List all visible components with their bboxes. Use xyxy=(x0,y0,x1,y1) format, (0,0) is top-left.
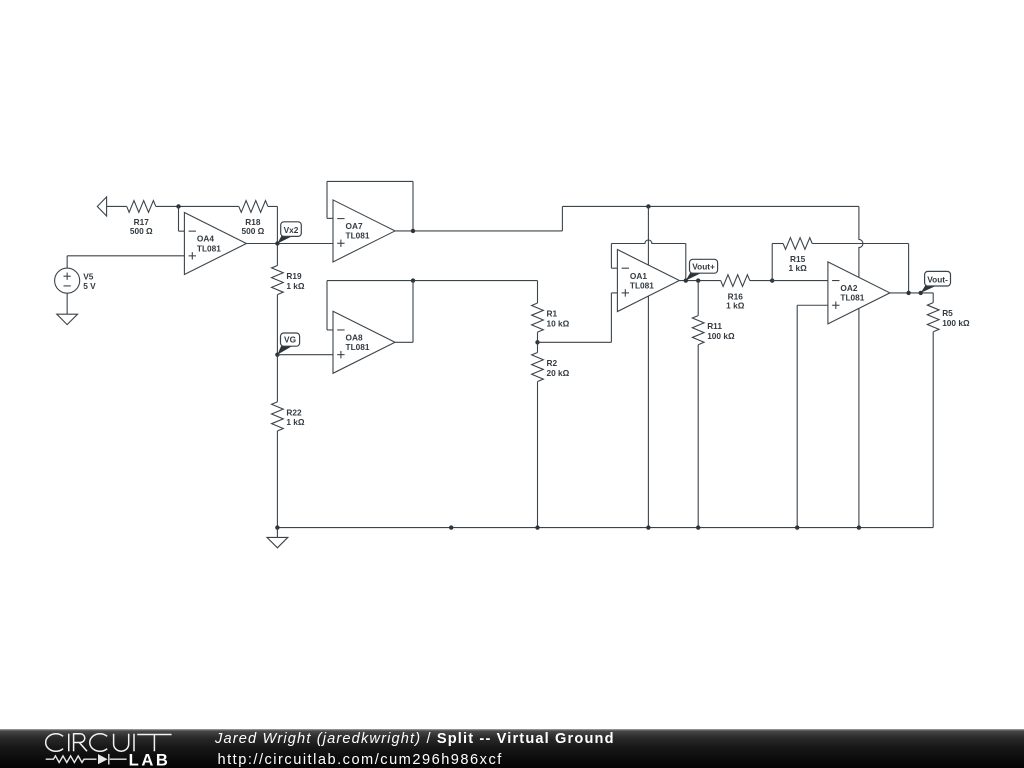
node OA7 output junction xyxy=(411,229,415,233)
wire xyxy=(67,255,184,257)
node bus/R22 xyxy=(275,525,279,529)
node OA8 feedback junction xyxy=(411,278,415,282)
ground (below V5) xyxy=(57,314,78,324)
svg-text:1 kΩ: 1 kΩ xyxy=(286,281,305,291)
wire xyxy=(156,205,239,207)
node Vout+ junction xyxy=(684,278,688,282)
wire xyxy=(611,267,617,269)
wire xyxy=(908,244,910,293)
svg-text:1 kΩ: 1 kΩ xyxy=(286,417,305,427)
svg-text:OA4: OA4 xyxy=(197,234,214,244)
wire OA2 output xyxy=(890,292,933,294)
node bus/R2 xyxy=(535,525,539,529)
svg-text:LAB: LAB xyxy=(129,750,171,768)
wire xyxy=(412,281,414,343)
wire xyxy=(772,243,783,245)
wire VG row xyxy=(277,354,333,356)
wire xyxy=(276,355,278,402)
wire xyxy=(932,293,934,303)
svg-text:R22: R22 xyxy=(286,407,302,417)
op-amp OA8 xyxy=(333,311,395,373)
wire to OA2 - xyxy=(772,280,828,282)
node rail junction xyxy=(646,204,650,208)
svg-text:100 kΩ: 100 kΩ xyxy=(942,318,970,328)
svg-text:TL081: TL081 xyxy=(197,243,221,253)
wire node Vx2 row xyxy=(246,243,333,245)
wire OA1 V- pin xyxy=(647,296,649,528)
wire xyxy=(537,332,539,342)
wire xyxy=(412,181,414,231)
svg-text:http://circuitlab.com/cum296h9: http://circuitlab.com/cum296h986xcf xyxy=(218,752,503,768)
resistor R16 xyxy=(721,275,750,287)
op-amp OA4 xyxy=(184,213,246,275)
svg-text:TL081: TL081 xyxy=(346,342,370,352)
svg-text:R2: R2 xyxy=(547,358,558,368)
wire xyxy=(326,281,328,330)
svg-text:TL081: TL081 xyxy=(840,293,864,303)
svg-text:Vout-: Vout- xyxy=(927,274,948,284)
op-amp OA2 xyxy=(828,262,890,324)
wire xyxy=(66,293,68,314)
wire xyxy=(537,342,539,352)
svg-text:VG: VG xyxy=(284,335,296,345)
wire OA1 V+ pin xyxy=(647,206,649,265)
node bus/OA1 V- xyxy=(646,525,650,529)
wire xyxy=(537,281,539,304)
net label VG xyxy=(277,346,293,355)
svg-text:R11: R11 xyxy=(707,321,722,331)
wire xyxy=(268,205,278,207)
wire xyxy=(812,243,908,245)
node bus stray xyxy=(449,525,453,529)
net label Vx2 xyxy=(277,236,293,244)
svg-text:1 kΩ: 1 kΩ xyxy=(789,263,808,273)
footer bar xyxy=(0,729,1024,768)
wire xyxy=(610,244,612,269)
wire ground bus xyxy=(277,527,933,529)
op-amp OA7 xyxy=(333,200,395,262)
wire xyxy=(750,280,772,282)
wire xyxy=(796,305,798,527)
wire xyxy=(685,244,687,281)
wire OA2 V- pin xyxy=(858,308,860,527)
svg-text:Vout+: Vout+ xyxy=(692,262,715,272)
wire OA1 output row xyxy=(679,280,720,282)
op-amp OA1 xyxy=(617,250,679,312)
voltage source V5 xyxy=(55,268,80,293)
svg-text:OA1: OA1 xyxy=(630,271,647,281)
node Vout- junction xyxy=(919,291,923,295)
wire to OA1 + xyxy=(611,292,617,294)
svg-text:V5: V5 xyxy=(83,271,94,281)
wire xyxy=(179,230,185,232)
node bus/R11 xyxy=(696,525,700,529)
wire OA2 V+ pin with hop xyxy=(859,206,863,277)
wire OA8 output xyxy=(395,341,413,343)
wire xyxy=(66,256,68,268)
svg-text:1 kΩ: 1 kΩ xyxy=(726,300,745,310)
wire xyxy=(276,244,278,266)
svg-text:OA7: OA7 xyxy=(346,221,363,231)
svg-text:500 Ω: 500 Ω xyxy=(130,226,153,236)
resistor R17 xyxy=(127,201,156,213)
wire xyxy=(561,206,563,230)
net flag (input arrow) xyxy=(97,197,106,216)
wire xyxy=(276,295,278,355)
svg-text:TL081: TL081 xyxy=(346,231,370,241)
svg-text:Jared Wright (jaredkwright) /: Jared Wright (jaredkwright) / Split -- V… xyxy=(214,731,615,747)
wire xyxy=(327,217,333,219)
net label Vout- xyxy=(921,285,937,293)
node R1/R2 junction xyxy=(535,340,539,344)
wire xyxy=(610,293,612,342)
wire xyxy=(276,528,278,538)
wire xyxy=(697,281,699,316)
node bus/OA2 V- xyxy=(857,525,861,529)
svg-text:R19: R19 xyxy=(286,271,302,281)
wire OA7 feedback top xyxy=(327,180,413,182)
wire OA1 feedback top with hop xyxy=(611,240,685,243)
wire top rail xyxy=(562,205,859,207)
node bus/OA2 + xyxy=(795,525,799,529)
wire xyxy=(326,181,328,218)
svg-text:R5: R5 xyxy=(942,308,953,318)
resistor R5 xyxy=(927,303,939,332)
svg-text:R1: R1 xyxy=(547,309,558,319)
wire xyxy=(327,329,333,331)
ground (bus) xyxy=(267,537,288,547)
resistor R2 xyxy=(532,352,544,381)
node junction R17/R18/OA4- xyxy=(176,204,180,208)
wire xyxy=(276,206,278,243)
resistor R19 xyxy=(272,266,284,295)
svg-text:500 Ω: 500 Ω xyxy=(241,226,264,236)
logo CIRCUIT xyxy=(46,734,172,752)
wire xyxy=(178,206,180,231)
wire OA2 + input xyxy=(797,304,828,306)
node Vx2 junction xyxy=(275,241,279,245)
svg-text:Vx2: Vx2 xyxy=(284,225,299,235)
wire xyxy=(771,244,773,281)
node R16/R15 junction xyxy=(770,278,774,282)
wire xyxy=(107,205,127,207)
wire xyxy=(276,431,278,528)
logo squiggle resistor+diode xyxy=(46,754,127,765)
node R11 tap xyxy=(696,278,700,282)
wire xyxy=(538,341,612,343)
svg-text:20 kΩ: 20 kΩ xyxy=(547,368,570,378)
wire OA8 feedback top xyxy=(327,280,538,282)
svg-text:10 kΩ: 10 kΩ xyxy=(547,318,570,328)
svg-text:OA2: OA2 xyxy=(840,283,857,293)
resistor R11 xyxy=(692,316,704,345)
wire OA7 output xyxy=(395,230,562,232)
net label Vout+ xyxy=(686,273,702,281)
resistor R18 xyxy=(239,201,268,213)
resistor R22 xyxy=(272,402,284,431)
wire xyxy=(537,382,539,528)
node feedback junction xyxy=(906,291,910,295)
svg-text:TL081: TL081 xyxy=(630,280,654,290)
svg-text:100 kΩ: 100 kΩ xyxy=(707,331,735,341)
svg-text:5 V: 5 V xyxy=(83,281,96,291)
wire xyxy=(697,345,699,528)
resistor R15 xyxy=(783,238,812,250)
node VG junction xyxy=(275,352,279,356)
svg-text:OA8: OA8 xyxy=(346,333,363,343)
wire xyxy=(932,332,934,528)
resistor R1 xyxy=(532,303,544,332)
